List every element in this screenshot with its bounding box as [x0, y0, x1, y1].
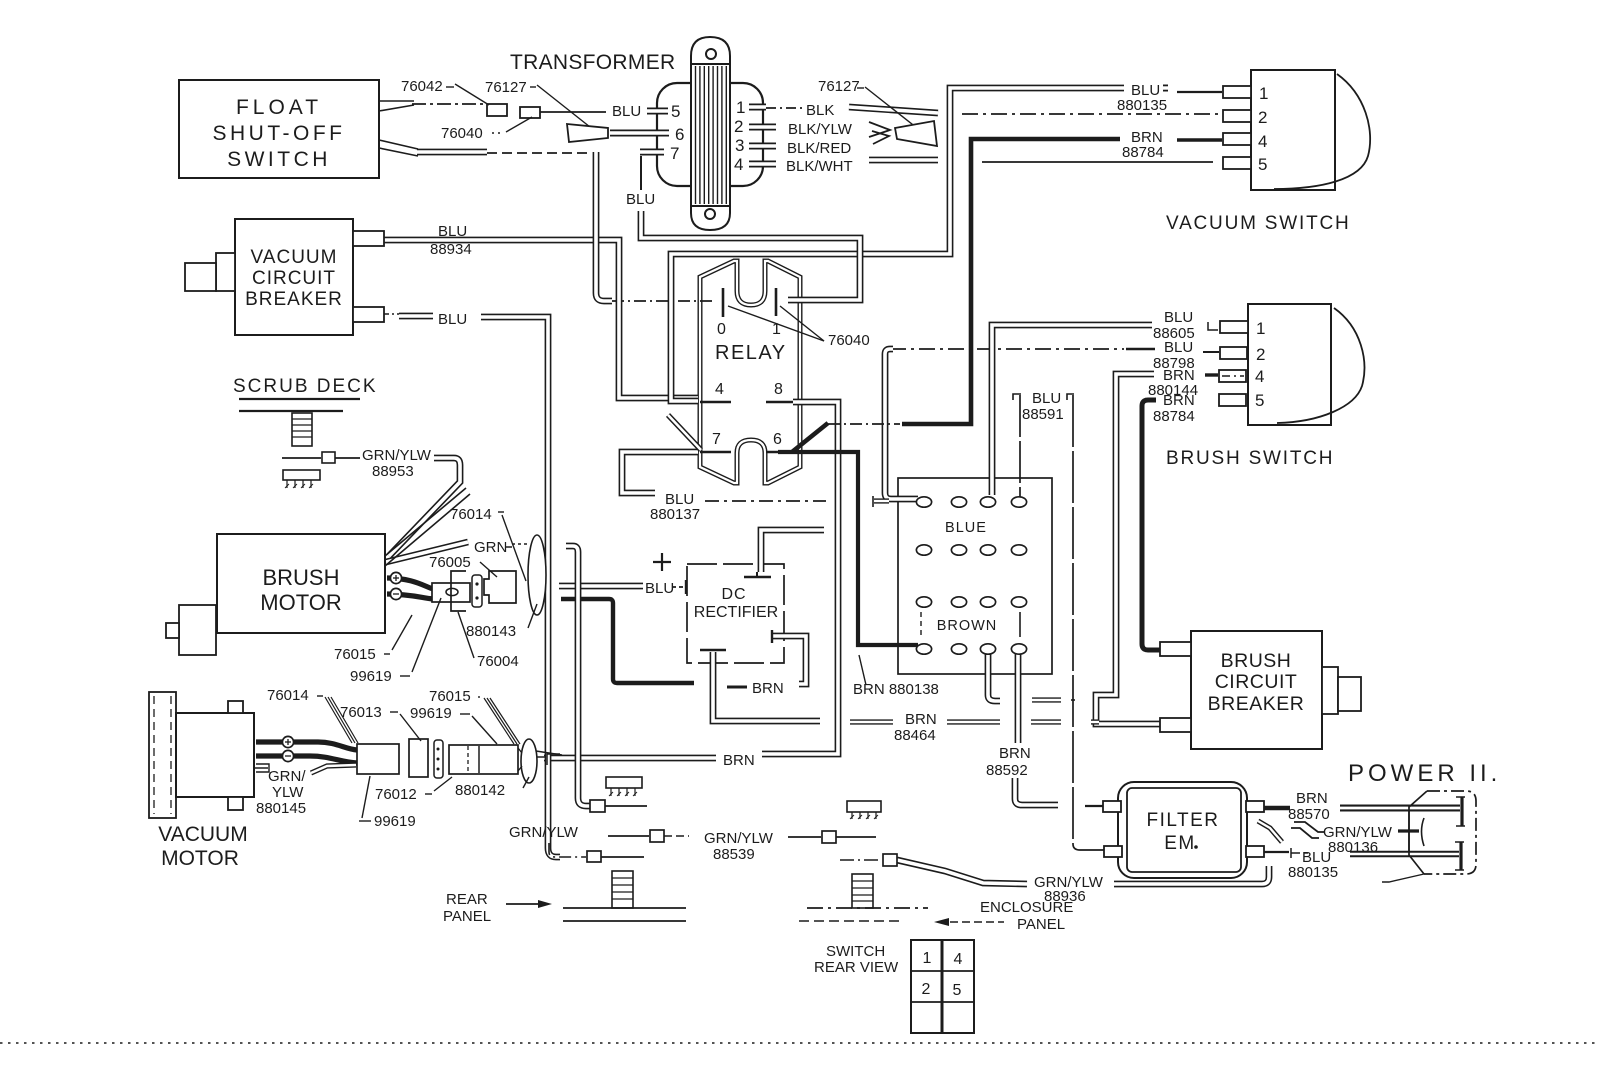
transformer pin 7 bar [640, 149, 664, 156]
transformer mounting tab bottom [691, 206, 730, 230]
relay pin 1 [775, 288, 778, 316]
transformer pin 2 bar [749, 124, 776, 131]
relay body outline [700, 261, 800, 483]
svg-text:CIRCUIT: CIRCUIT [252, 268, 336, 289]
svg-text:BRUSH: BRUSH [262, 565, 339, 590]
wire vacuum-circuit-breaker lower pin BLU to long vertical [399, 313, 433, 320]
svg-text:MOTOR: MOTOR [260, 590, 341, 615]
wire BRN 88784 brush switch pin 5 to brush circuit breaker top pin [1142, 400, 1160, 650]
wire float switch bottom lead vertical to relay pin 0 [596, 152, 612, 301]
wire transformer pin 7 upper vertical [640, 156, 642, 190]
wire BRN 88592 lower elbow to filter [1015, 778, 1058, 805]
filter right pins [1246, 801, 1264, 812]
wire BLU brush motor cable to rectifier input [559, 583, 643, 590]
bead connector wire 1 [590, 800, 605, 812]
relay pin 8 bar [766, 401, 793, 404]
wire GRN/YLW 88953 scrub deck to brush motor [389, 458, 460, 556]
svg-text:2: 2 [734, 117, 743, 136]
brush circuit breaker box [1191, 631, 1322, 749]
svg-text:GRN/YLW: GRN/YLW [509, 824, 579, 841]
board sockets [916, 497, 931, 507]
wire GRN brush motor diagonal [386, 542, 468, 562]
svg-text:76127: 76127 [818, 78, 860, 95]
brush switch flap [1277, 308, 1364, 423]
wire BLU long vertical to vacuum motor area [481, 317, 560, 857]
vacuum motor plus terminal [282, 736, 293, 747]
vacuum connector keeper [434, 740, 443, 778]
brush switch pin1 hook [1208, 322, 1218, 330]
svg-text:BLU: BLU [1164, 309, 1193, 326]
wire BLU 88591 first drop to board col4 [1013, 394, 1021, 400]
chevron wires into wire-nut [869, 122, 890, 137]
relay pin 0 [722, 288, 725, 317]
wire board col1 from BLU 88798 corner [885, 349, 918, 499]
svg-text:1: 1 [736, 98, 745, 117]
wire BLU 880135 filter to power connector [1263, 851, 1289, 853]
svg-text:BLK/WHT: BLK/WHT [786, 158, 853, 175]
svg-text:76013: 76013 [340, 704, 382, 721]
transformer pin 5 bar [647, 108, 668, 115]
wire vacuum switch pin 4 tail [1177, 138, 1222, 141]
svg-text:VACUUM: VACUUM [158, 823, 247, 846]
svg-text:BLK/RED: BLK/RED [787, 140, 851, 157]
wire float top lead dash-dot [412, 103, 486, 105]
dc rectifier box [687, 564, 784, 663]
svg-text:88784: 88784 [1153, 408, 1195, 425]
scrub deck screw [292, 413, 312, 446]
transformer pin 3 bar [749, 143, 776, 150]
wire GRN/YLW hook down to bead connector [566, 546, 590, 806]
svg-text:BLUE: BLUE [945, 520, 987, 536]
brush connector keeper [472, 575, 482, 607]
svg-text:76014: 76014 [450, 506, 492, 523]
vacuum cable ellipse [521, 739, 537, 783]
vacuum motor GRN/YLW lead [254, 767, 268, 769]
svg-text:SHUT-OFF: SHUT-OFF [213, 122, 346, 145]
filter body [1118, 782, 1247, 878]
connector 76127 [520, 107, 540, 118]
svg-text:76127: 76127 [485, 79, 527, 96]
svg-text:2: 2 [1256, 345, 1265, 364]
power middle link [1408, 811, 1410, 852]
svg-text:CIRCUIT: CIRCUIT [1215, 671, 1298, 693]
svg-text:76042: 76042 [401, 78, 443, 95]
dc rectifier plus symbol [661, 553, 663, 571]
svg-text:88464: 88464 [894, 727, 936, 744]
svg-text:1: 1 [1259, 84, 1268, 103]
svg-text:99619: 99619 [374, 813, 416, 830]
wire float switch bottom lead [417, 149, 487, 156]
brush motor thick leads [387, 578, 433, 589]
svg-text:FILTER: FILTER [1146, 810, 1219, 831]
power terminal 1 [1460, 797, 1463, 826]
vacuum motor minus terminal [282, 750, 293, 761]
svg-text:3: 3 [735, 136, 744, 155]
svg-text:BLU: BLU [626, 191, 655, 208]
svg-text:TRANSFORMER: TRANSFORMER [510, 51, 675, 74]
svg-text:7: 7 [670, 144, 679, 163]
svg-text:76015: 76015 [429, 688, 471, 705]
vacuum motor tabs [228, 701, 243, 713]
svg-text:88592: 88592 [986, 762, 1028, 779]
svg-text:5: 5 [1255, 391, 1264, 410]
enclosure panel arrow [950, 921, 1004, 923]
wire vacuum-switch pin 1 BLU 880135 to relay pin 4 [671, 88, 1124, 401]
svg-text:880142: 880142 [455, 782, 505, 799]
svg-text:BLU: BLU [438, 223, 467, 240]
wire relay pin 8 to BRN run [762, 402, 838, 754]
svg-text:880145: 880145 [256, 800, 306, 817]
svg-text:880135: 880135 [1288, 864, 1338, 881]
brush motor plus terminal [390, 572, 401, 583]
rectifier right terminal [771, 630, 773, 643]
vacuum connector 99619 block [409, 739, 428, 777]
wire filter upper-left pin lead [1085, 805, 1105, 807]
svg-text:GRN/YLW: GRN/YLW [704, 830, 774, 847]
svg-text:GRN: GRN [474, 539, 507, 556]
power terminal 2 [1459, 842, 1462, 870]
svg-text:4: 4 [715, 381, 724, 398]
svg-text:88953: 88953 [372, 463, 414, 480]
wire BRN 88784 vacuum switch pin 4 thick run [902, 139, 1120, 424]
svg-text:88570: 88570 [1288, 806, 1330, 823]
bead connector wire 3 GRN/YLW 88539 [608, 835, 649, 837]
filter left pins [1103, 801, 1121, 812]
power leader [1382, 874, 1424, 882]
wire vacuum connector output run [536, 751, 562, 755]
brush connector bracket [451, 571, 466, 611]
brush circuit breaker bottom pin plug [1160, 718, 1191, 732]
svg-text:1: 1 [1256, 319, 1265, 338]
svg-text:BRN: BRN [723, 752, 755, 769]
svg-text:BRUSH: BRUSH [1221, 650, 1292, 672]
svg-text:88591: 88591 [1022, 406, 1064, 423]
bead connector wire 4 [788, 836, 821, 838]
svg-text:0: 0 [717, 321, 726, 338]
svg-text:1: 1 [923, 950, 932, 967]
svg-text:FLOAT: FLOAT [236, 96, 322, 119]
svg-text:BLK/YLW: BLK/YLW [788, 121, 853, 138]
svg-text:BRN: BRN [905, 711, 937, 728]
svg-text:GRN/: GRN/ [268, 768, 306, 785]
svg-text:BLU: BLU [1164, 339, 1193, 356]
svg-text:5: 5 [953, 982, 962, 999]
rectifier bottom-left terminal [700, 649, 726, 651]
brush motor box [217, 534, 385, 633]
rectifier input terminal [685, 580, 687, 594]
brush connector 76005 block [432, 583, 470, 602]
svg-text:4: 4 [954, 951, 963, 968]
wire relay pin 7 to BLU 880137 [622, 452, 698, 493]
svg-text:99619: 99619 [350, 668, 392, 685]
svg-text:RECTIFIER: RECTIFIER [694, 604, 778, 621]
wire float switch top lead pair [379, 100, 414, 102]
vacuum motor thick leads [256, 742, 357, 750]
svg-text:SWITCH: SWITCH [826, 943, 885, 960]
rear panel arrow [506, 903, 538, 905]
relay pin 6 bar [766, 451, 792, 454]
wire board row1 col1 feed tick [872, 496, 874, 507]
wire transformer BLK right lead [849, 107, 938, 113]
brush cable ellipse [528, 535, 546, 615]
svg-text:6: 6 [773, 431, 782, 448]
svg-text:BLU: BLU [645, 580, 674, 597]
vacuum motor box [176, 713, 254, 797]
wire BLK dash-dot to vacuum switch pin 2 [962, 113, 1221, 115]
svg-text:VACUUM SWITCH: VACUUM SWITCH [1166, 213, 1351, 234]
wire board col3 hook down [988, 652, 1000, 701]
transformer laminated core [691, 64, 730, 206]
vacuum motor green wire squiggle [311, 765, 356, 773]
vacuum circuit breaker mount [216, 253, 235, 291]
svg-text:76004: 76004 [477, 653, 519, 670]
wire float switch bottom lead pair [379, 140, 418, 149]
svg-text:76015: 76015 [334, 646, 376, 663]
transformer mounting tab top [691, 37, 730, 64]
svg-text:76012: 76012 [375, 786, 417, 803]
svg-text:88784: 88784 [1122, 144, 1164, 161]
wire BRN 88464 dashed run [850, 719, 893, 724]
wire DC rectifier minus terminal down-right BRN [713, 652, 820, 721]
svg-text:BRN: BRN [752, 680, 784, 697]
svg-text:76005: 76005 [429, 554, 471, 571]
brush connector 76004 block [484, 571, 516, 603]
hatched connector 2 [847, 801, 881, 812]
wire relay pin 6 diagonal [792, 423, 828, 452]
bead connector wire 5 [840, 859, 882, 861]
brush switch box [1248, 304, 1331, 425]
filter squiggle wire [1258, 821, 1282, 842]
rear panel symbol [612, 871, 633, 908]
wire BRN 88592 board col4 down [1015, 652, 1022, 743]
svg-text:BROWN: BROWN [937, 618, 998, 634]
wire-nut connector 76040 [567, 124, 608, 142]
svg-text:BLU: BLU [612, 103, 641, 120]
wire BRN 880144 brush switch pin 4 to brush circuit breaker lower pin [1096, 374, 1160, 724]
scrub deck lines [239, 398, 360, 400]
svg-text:4: 4 [1258, 132, 1267, 151]
svg-text:SCRUB DECK: SCRUB DECK [233, 376, 378, 397]
svg-text:76040: 76040 [441, 125, 483, 142]
power blu stub bracket [1291, 848, 1300, 858]
wire transformer pin1 dash-dot BLK [766, 107, 803, 109]
wire BLU 88798 dash-dot to brush switch pin 2 [890, 348, 1124, 350]
wire BLU 880137 dash-dot right [705, 500, 826, 502]
wire thick brush motor cable to rectifier area [561, 599, 694, 683]
svg-text:880135: 880135 [1117, 97, 1167, 114]
transformer body [657, 83, 763, 186]
svg-text:BREAKER: BREAKER [245, 289, 343, 310]
wire transformer pin 7 BLU elbow to relay pin 1 [641, 211, 860, 300]
vacuum circuit breaker bottom pin [353, 307, 384, 322]
svg-text:4: 4 [1255, 367, 1264, 386]
svg-text:VACUUM: VACUUM [251, 247, 338, 268]
wire BRN 880138 relay pin 6 to board col1 bottom [778, 452, 918, 645]
svg-text:880143: 880143 [466, 623, 516, 640]
brush switch pin stubs [1220, 321, 1248, 333]
connector 76042 [487, 104, 507, 116]
wire BLU 88934 vacuum-circuit-breaker to relay pin 4 [384, 240, 698, 398]
svg-text:YLW: YLW [272, 784, 304, 801]
svg-text:880137: 880137 [650, 506, 700, 523]
vacuum connector taper [518, 748, 522, 753]
board connector block [898, 478, 1052, 674]
svg-text:880136: 880136 [1328, 839, 1378, 856]
svg-text:BREAKER: BREAKER [1208, 693, 1305, 715]
wire brush switch pin 2 tail [1203, 351, 1219, 353]
svg-text:ENCLOSURE: ENCLOSURE [980, 899, 1073, 916]
wire transformer BLK/WHT right lead [869, 157, 938, 164]
svg-text:MOTOR: MOTOR [161, 847, 239, 870]
vacuum motor housing [149, 692, 176, 818]
svg-text:2: 2 [1258, 108, 1267, 127]
wire 76127 to transformer pin [540, 111, 606, 113]
label BRN rectifier [727, 686, 747, 689]
svg-text:76040: 76040 [828, 332, 870, 349]
vacuum connector 880142 block [449, 745, 518, 774]
board col1 row3 dash [920, 612, 922, 637]
wire vacuum switch pin 1 bar lead [1177, 91, 1222, 93]
svg-text:PANEL: PANEL [443, 908, 491, 925]
bead connector wire 2 [549, 843, 586, 857]
vacuum connector 76013 block [357, 744, 399, 774]
svg-text:EM: EM [1164, 833, 1196, 854]
svg-text:2: 2 [922, 981, 931, 998]
brush circuit breaker top pin plug [1160, 642, 1191, 656]
svg-text:5: 5 [671, 102, 680, 121]
svg-text:76014: 76014 [267, 687, 309, 704]
svg-text:5: 5 [1258, 155, 1267, 174]
transformer pin 4 bar [749, 161, 776, 168]
wire vacuum switch BLU 880135 short bar [1163, 85, 1168, 92]
svg-text:REAR: REAR [446, 891, 488, 908]
svg-text:8: 8 [774, 381, 783, 398]
svg-text:6: 6 [675, 125, 684, 144]
vacuum switch flap [1274, 74, 1370, 189]
svg-text:BRN: BRN [1296, 790, 1328, 807]
svg-text:88934: 88934 [430, 241, 472, 258]
vacuum connector output [537, 756, 546, 758]
wire BRN dashed run y700 [1032, 697, 1061, 702]
board col4 row3 line [1019, 612, 1021, 637]
svg-text:SWITCH: SWITCH [227, 148, 331, 171]
float shut-off switch box [179, 80, 379, 178]
svg-text:88539: 88539 [713, 846, 755, 863]
svg-text:BRUSH SWITCH: BRUSH SWITCH [1166, 448, 1334, 469]
wire BRN 88570 filter to power connector [1263, 806, 1290, 810]
wire BLU 88591 second drop to filter lower pin [1067, 394, 1074, 400]
wire dash-dot relay pin 6 to thick run [828, 423, 900, 425]
transformer pin 6 bar [610, 130, 669, 137]
transformer pin 1 bar [749, 104, 766, 111]
svg-text:99619: 99619 [410, 705, 452, 722]
power connector outline [1409, 791, 1427, 874]
wire BRN run vacuum motor connector to relay pin 8 [544, 755, 716, 762]
wire relay pin 7 diagonal lever [668, 415, 701, 450]
svg-text:REAR VIEW: REAR VIEW [814, 959, 899, 976]
svg-text:PANEL: PANEL [1017, 916, 1065, 933]
wire GRN/YLW 88936 run under filter [1114, 866, 1269, 884]
enclosure panel symbol [852, 874, 873, 908]
brush motor shaft [179, 605, 216, 655]
wire BLU 88605 brush switch to board col3 [992, 325, 1152, 495]
brush motor GRN leads pair [385, 488, 466, 556]
wire float bottom lead dashed [487, 152, 592, 154]
rectifier top terminal [744, 576, 771, 578]
brush circuit breaker mount [1322, 667, 1338, 714]
scrub deck hatched connector [283, 470, 320, 480]
wire DC rectifier right loop [772, 636, 806, 684]
vacuum circuit breaker box [235, 219, 353, 335]
scrub deck bead connector wire [282, 457, 321, 459]
hatched connector 1 [606, 777, 642, 788]
svg-text:BRN: BRN [999, 745, 1031, 762]
bottom margin dotted line [0, 1042, 1600, 1044]
brush switch pin 4 stub dash [1222, 375, 1244, 377]
svg-text:BLK: BLK [806, 102, 834, 119]
relay pin 7 bar [700, 451, 731, 454]
vacuum switch pin stubs [1223, 86, 1251, 98]
wire-nut connector 76127 [895, 121, 937, 146]
wire brush switch pin 4 tail [1205, 373, 1218, 376]
switch rear view grid [911, 940, 974, 1033]
svg-text:BRN: BRN [1163, 392, 1195, 409]
svg-text:RELAY: RELAY [715, 342, 787, 364]
svg-text:BLU: BLU [438, 311, 467, 328]
wire dash-dot into relay pin 0 [612, 300, 716, 302]
svg-text:BLU: BLU [1032, 390, 1061, 407]
vacuum circuit breaker top pin [353, 231, 384, 246]
wire GRN/YLW 88936 diagonal from enclosure area [897, 860, 1027, 884]
wire DC rectifier plus feed from right vertical [761, 530, 824, 572]
relay pin 4 bar [700, 401, 731, 404]
svg-text:POWER II.: POWER II. [1348, 760, 1501, 787]
wire vacuum switch pin 5 lead [982, 161, 1213, 163]
power squiggle wire GRN/YLW 880136 [1294, 822, 1324, 832]
vacuum switch box [1251, 70, 1335, 190]
brush motor minus terminal [390, 588, 401, 599]
svg-text:GRN/YLW: GRN/YLW [362, 447, 432, 464]
wire vacuum breaker bottom pin dash [384, 313, 399, 315]
svg-text:DC: DC [721, 586, 746, 603]
svg-text:7: 7 [712, 431, 721, 448]
svg-text:4: 4 [734, 155, 743, 174]
